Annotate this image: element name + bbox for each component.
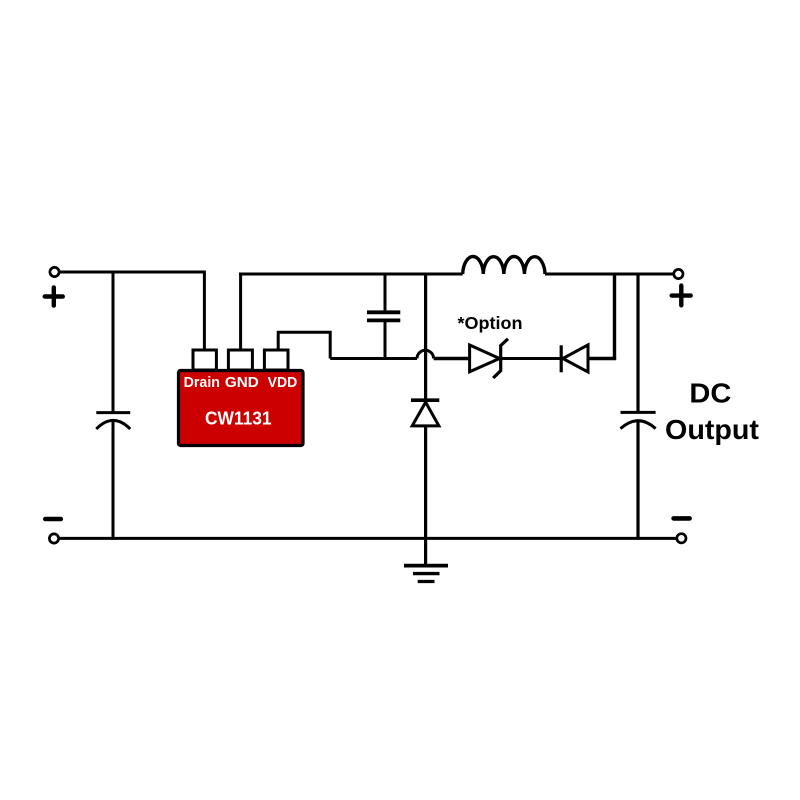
zener D2 cathode bar with bent ends	[493, 339, 508, 378]
wire: hop to zener anode	[434, 357, 470, 360]
wire: inductor to + output terminal	[545, 273, 673, 276]
capacitor C1 curved plate	[96, 420, 130, 429]
capacitor C1 flat plate	[96, 411, 130, 414]
wire: C2 to feedback line	[384, 322, 387, 359]
wire: feedback line to hop	[330, 357, 417, 360]
wire: drop to Drain pin	[203, 271, 206, 351]
svg-text:Drain: Drain	[184, 375, 220, 391]
pin 3 VDD	[264, 350, 288, 370]
capacitor C3 curved plate	[621, 421, 656, 429]
wire: C3 to bottom rail	[636, 421, 639, 538]
diode D1 cathode bar	[411, 398, 439, 402]
output positive terminal	[674, 269, 683, 278]
svg-text:VDD: VDD	[268, 375, 298, 391]
capacitor C2 bottom plate	[367, 318, 400, 322]
wire: zener to D3	[501, 357, 561, 360]
wire: capacitor C2 drop from rail	[384, 274, 387, 310]
inductor L1	[463, 257, 545, 274]
wire: switch node rail (GND pin to inductor)	[239, 273, 463, 276]
wire: D1 anode to bottom rail	[424, 426, 427, 538]
wire: output cap drop	[636, 274, 639, 411]
wire: switch node drop to D1	[424, 274, 427, 399]
svg-text:*Option: *Option	[458, 313, 523, 333]
wire hop over switch node	[417, 350, 434, 358]
capacitor C3 flat plate	[621, 411, 656, 414]
minus sign (input -)	[45, 517, 61, 522]
input negative terminal	[49, 534, 58, 543]
input positive terminal	[50, 267, 59, 276]
wire: VDD pin jog to feedback line	[278, 332, 330, 358]
ground bar 1	[404, 564, 448, 568]
wire: + terminal to Drain drop (top-left rail)	[60, 271, 205, 274]
minus sign (output -)	[674, 516, 690, 521]
diode D3 cathode bar	[560, 345, 563, 372]
pin 2 GND	[228, 350, 252, 370]
diode D1 triangle	[412, 402, 439, 426]
capacitor C2 top plate	[367, 310, 400, 314]
plus sign (input +)	[45, 287, 63, 305]
svg-text:CW1131: CW1131	[205, 408, 272, 429]
output negative terminal	[677, 534, 686, 543]
IC U1 CW1131 body	[179, 371, 304, 446]
svg-text:GND: GND	[225, 375, 259, 391]
wire: C1 to bottom rail	[112, 421, 115, 538]
svg-text:DC: DC	[689, 377, 731, 408]
ground bar 2	[413, 572, 440, 575]
svg-text:Output: Output	[665, 414, 759, 445]
plus sign (output +)	[672, 286, 691, 306]
wire: riser to output rail	[613, 273, 616, 361]
wire: input cap top drop	[112, 272, 115, 412]
wire: GND pin riser	[239, 273, 242, 351]
ground bar 3	[418, 580, 435, 583]
bottom rail (negative)	[59, 537, 676, 540]
ground stem	[424, 538, 427, 564]
diode D3 triangle	[563, 345, 588, 372]
wire: D3 anode to riser	[588, 357, 616, 360]
pin 1 Drain	[193, 350, 216, 370]
zener D2 triangle	[470, 345, 500, 372]
